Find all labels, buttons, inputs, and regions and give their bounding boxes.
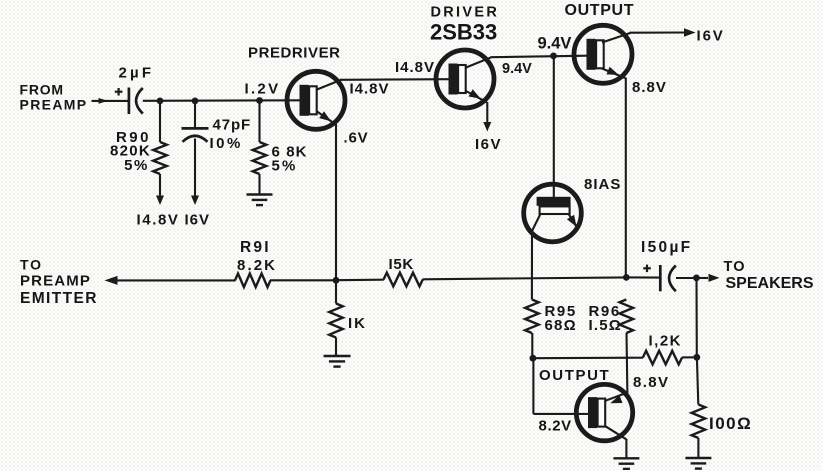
capacitor 150uF output bbox=[643, 265, 676, 292]
wire output collector to 16V bbox=[630, 31, 685, 33]
resistor 100ohm bbox=[692, 405, 706, 439]
arrowhead driver emitter 16V bbox=[483, 122, 491, 132]
svg-text:I4.8V: I4.8V bbox=[137, 212, 180, 229]
wire R96 down to emitter join bbox=[625, 333, 628, 393]
node I junction dot bbox=[693, 354, 700, 361]
label DRIVER bbox=[431, 4, 500, 20]
label 16V supply bbox=[697, 28, 725, 45]
label R90 bbox=[110, 129, 151, 174]
lower output emitter lead bbox=[606, 392, 628, 400]
wire driver collector to node D bbox=[491, 56, 588, 58]
svg-text:I50µF: I50µF bbox=[641, 239, 692, 256]
svg-text:9.4V: 9.4V bbox=[502, 61, 532, 77]
label TO SPEAKERS bbox=[724, 259, 814, 292]
arrowhead R90 down bbox=[156, 196, 164, 206]
wire input from preamp bbox=[92, 100, 129, 102]
bias right lead bbox=[569, 214, 578, 228]
label 15K bbox=[389, 256, 414, 273]
label 8.8V upper bbox=[632, 79, 667, 96]
bias left lead bbox=[532, 214, 541, 231]
svg-text:I5K: I5K bbox=[389, 256, 414, 273]
svg-text:OUTPUT: OUTPUT bbox=[565, 2, 635, 19]
ground lower output bbox=[613, 458, 639, 469]
wire node H down to base bbox=[533, 358, 589, 414]
svg-text:I4.8V: I4.8V bbox=[395, 59, 435, 76]
label 150uF bbox=[641, 239, 692, 256]
driver collector lead bbox=[466, 57, 492, 67]
node B junction dot bbox=[192, 98, 199, 105]
svg-text:TO: TO bbox=[20, 257, 43, 273]
label 1.2V bbox=[245, 81, 281, 98]
wire 1K to ground bbox=[335, 338, 337, 356]
node H junction dot bbox=[530, 355, 537, 362]
resistor R90 820K bbox=[153, 142, 167, 174]
capacitor C-in 2uF bbox=[115, 88, 143, 115]
arrowhead to speakers bbox=[709, 274, 720, 282]
svg-text:9.4V: 9.4V bbox=[538, 35, 572, 53]
svg-text:PREDRIVER: PREDRIVER bbox=[248, 44, 341, 61]
label 9.4V right of driver bbox=[502, 61, 532, 77]
transistor Q4 bias bbox=[524, 184, 582, 242]
label R95 bbox=[545, 303, 577, 334]
svg-text:5%: 5% bbox=[272, 158, 298, 175]
node C junction dot bbox=[256, 97, 263, 104]
node G junction dot bbox=[693, 275, 700, 282]
wire node B down bbox=[194, 101, 196, 128]
label 9.4V above node D bbox=[538, 35, 572, 53]
svg-text:I00Ω: I00Ω bbox=[709, 414, 752, 433]
label 8.8V lower bbox=[633, 374, 669, 391]
label 2uF value bbox=[119, 65, 155, 82]
svg-text:5%: 5% bbox=[124, 157, 149, 174]
lower output collector lead bbox=[606, 426, 627, 439]
svg-text:R9I: R9I bbox=[240, 239, 271, 256]
lower output emitter arrowhead bbox=[610, 395, 622, 403]
label FROM PREAMP bbox=[20, 81, 88, 112]
label 6.8K bbox=[272, 144, 308, 175]
transistor Q3 output upper bbox=[574, 25, 632, 83]
wire cap to predriver base bbox=[143, 99, 301, 102]
transistor Q1 predriver bbox=[287, 71, 345, 129]
wire node F to cap bbox=[626, 276, 659, 278]
wire 15K to node F bbox=[423, 277, 627, 279]
label 2SB33 bbox=[430, 20, 497, 45]
label R91 bbox=[237, 239, 277, 274]
label .6V bbox=[344, 130, 369, 147]
svg-text:OUTPUT: OUTPUT bbox=[539, 367, 610, 384]
svg-text:68Ω: 68Ω bbox=[545, 317, 577, 334]
resistor 6.8K bbox=[253, 142, 267, 174]
wire predriver emitter down bbox=[335, 125, 337, 281]
svg-text:I0%: I0% bbox=[210, 135, 243, 152]
ground 6.8K bbox=[247, 195, 273, 206]
wire node D down to bias bbox=[553, 56, 555, 198]
ground 1K bbox=[324, 356, 351, 367]
label 16V at 47pF bbox=[185, 212, 211, 229]
wire 6.8K to ground bbox=[258, 174, 260, 194]
svg-text:DRIVER: DRIVER bbox=[431, 4, 500, 20]
wire driver emitter down bbox=[486, 102, 488, 125]
wire node I down to 100ohm bbox=[697, 357, 698, 404]
svg-text:8.2V: 8.2V bbox=[539, 418, 572, 435]
wire node E to 15K bbox=[336, 279, 384, 282]
output collector lead bbox=[602, 33, 631, 43]
wire R90 to arrow bbox=[159, 174, 161, 198]
wire node G down to node I bbox=[695, 278, 697, 357]
predriver emitter lead bbox=[317, 112, 337, 126]
resistor R96 1.5ohm bbox=[620, 300, 634, 334]
svg-text:I4.8V: I4.8V bbox=[350, 81, 390, 98]
svg-text:I,2K: I,2K bbox=[649, 333, 683, 350]
resistor 15K bbox=[384, 273, 423, 287]
wire 100ohm to ground bbox=[697, 438, 699, 458]
wire 1.2K to node I bbox=[682, 356, 697, 358]
svg-text:I.5Ω: I.5Ω bbox=[589, 317, 623, 334]
wire bias emitter down bbox=[531, 230, 533, 300]
wire predriver collector rail bbox=[340, 78, 450, 81]
resistor R95 68ohm bbox=[525, 300, 539, 334]
driver emitter lead bbox=[466, 91, 487, 102]
svg-text:2SB33: 2SB33 bbox=[430, 20, 497, 45]
svg-text:TO: TO bbox=[724, 259, 746, 275]
wire left rail to R91 bbox=[115, 279, 236, 281]
driver emitter arrowhead bbox=[469, 89, 481, 98]
wire node E down bbox=[335, 280, 337, 303]
label 1K bbox=[348, 315, 367, 332]
wire lower collector to ground bbox=[625, 439, 627, 458]
label 16V below driver bbox=[475, 136, 502, 153]
node F junction dot bbox=[623, 274, 630, 281]
node E junction dot bbox=[333, 277, 340, 284]
svg-text:SPEAKERS: SPEAKERS bbox=[726, 275, 814, 292]
transistor Q5 output lower bbox=[576, 384, 632, 440]
output emitter arrowhead bbox=[607, 67, 619, 75]
capacitor 47pF bbox=[182, 128, 209, 141]
label 14.8V above driver wire bbox=[395, 59, 435, 76]
node D junction dot bbox=[550, 53, 557, 60]
svg-text:I6V: I6V bbox=[475, 136, 502, 153]
predriver collector lead bbox=[317, 80, 342, 90]
svg-text:PREAMP: PREAMP bbox=[20, 273, 91, 290]
svg-text:I.2V: I.2V bbox=[245, 81, 281, 98]
arrowhead to preamp emitter bbox=[105, 276, 118, 285]
svg-text:I6V: I6V bbox=[185, 212, 211, 229]
label PREDRIVER bbox=[248, 44, 341, 61]
label 47pF bbox=[210, 117, 252, 153]
label 100ohm bbox=[709, 414, 752, 433]
label OUTPUT upper bbox=[565, 2, 635, 19]
node A junction dot bbox=[157, 98, 164, 105]
svg-text:8IAS: 8IAS bbox=[584, 176, 621, 193]
bias emitter arrowhead bbox=[567, 215, 577, 227]
label R96 bbox=[589, 303, 623, 334]
svg-text:.6V: .6V bbox=[344, 130, 369, 147]
label 14.8V right of predriver bbox=[350, 81, 390, 98]
wire R91 to node E bbox=[270, 279, 336, 281]
label 1.2K bbox=[649, 333, 683, 350]
svg-text:8.8V: 8.8V bbox=[632, 79, 667, 96]
resistor 1.2K bbox=[643, 351, 682, 365]
svg-text:PREAMP: PREAMP bbox=[20, 96, 88, 112]
resistor R91 8.2K bbox=[235, 274, 271, 288]
arrowhead 47pF down bbox=[191, 196, 199, 206]
svg-text:I6V: I6V bbox=[697, 28, 725, 45]
arrowhead 16V supply bbox=[684, 28, 696, 36]
label 8.2V bbox=[539, 418, 572, 435]
svg-text:8.8V: 8.8V bbox=[633, 374, 669, 391]
svg-text:47pF: 47pF bbox=[213, 117, 252, 134]
svg-text:FROM: FROM bbox=[20, 81, 64, 97]
wire node C down bbox=[258, 101, 260, 143]
label TO PREAMP EMITTER bbox=[20, 257, 98, 308]
wire R95 to node H bbox=[531, 333, 533, 358]
arrowhead input signal bbox=[99, 98, 109, 104]
ground 100ohm bbox=[685, 458, 711, 469]
svg-text:IK: IK bbox=[348, 315, 367, 332]
predriver emitter arrowhead bbox=[319, 111, 331, 121]
wire 47pF to arrow bbox=[194, 139, 196, 199]
svg-text:8.2K: 8.2K bbox=[237, 257, 277, 274]
wire cap to node G bbox=[676, 277, 696, 279]
label 14.8V at R90 bbox=[137, 212, 180, 229]
resistor 1K bbox=[329, 304, 343, 338]
transistor Q2 driver 2SB33 bbox=[436, 50, 494, 108]
wire output emitter down bbox=[625, 78, 627, 278]
svg-text:EMITTER: EMITTER bbox=[20, 290, 98, 307]
wire node H to 1.2K bbox=[533, 357, 643, 360]
label OUTPUT lower bbox=[539, 367, 610, 384]
label BIAS bbox=[584, 176, 621, 193]
output emitter lead bbox=[602, 69, 625, 79]
svg-text:2µF: 2µF bbox=[119, 65, 155, 82]
wire node G arrow bbox=[696, 277, 708, 279]
wire node A down bbox=[159, 101, 161, 142]
